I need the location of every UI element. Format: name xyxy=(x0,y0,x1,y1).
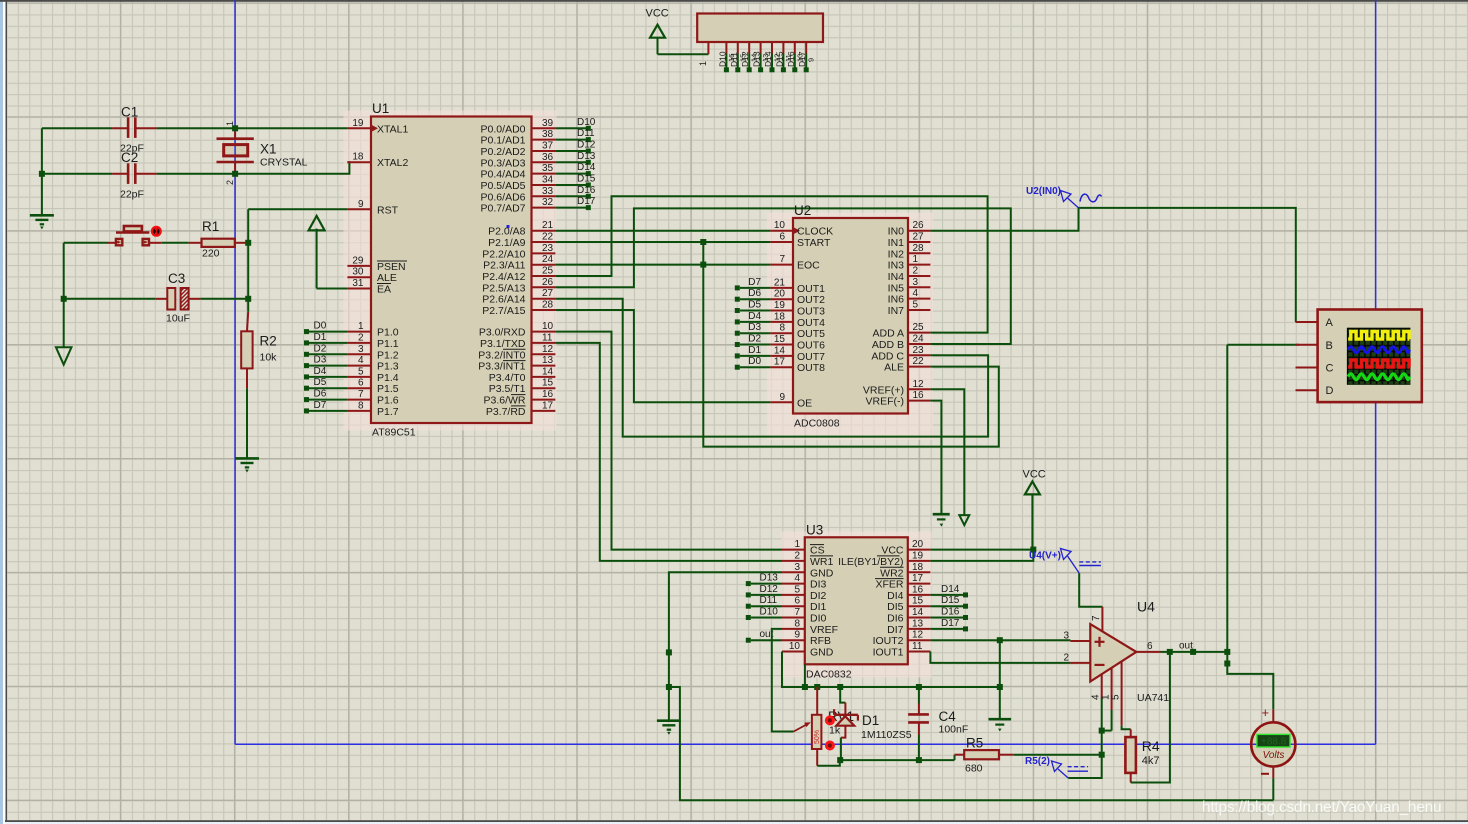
svg-text:C2: C2 xyxy=(121,150,138,165)
node D5 terminal xyxy=(304,386,309,391)
oscilloscope screen xyxy=(1347,328,1411,385)
svg-text:P3.7/RD: P3.7/RD xyxy=(486,406,526,418)
svg-text:D7: D7 xyxy=(748,277,761,288)
U4 pin 2 stub xyxy=(1070,662,1090,664)
RN1 pin D16 stub xyxy=(794,42,796,54)
U2 selection highlight xyxy=(767,213,933,441)
svg-text:RFB: RFB xyxy=(810,635,831,647)
ground VREF- xyxy=(933,513,950,516)
svg-text:D15: D15 xyxy=(941,595,960,606)
svg-text:VCC: VCC xyxy=(1023,469,1046,481)
scope trace B blue xyxy=(1348,347,1409,353)
svg-text:2: 2 xyxy=(1063,652,1069,663)
node C3 right junction xyxy=(245,296,251,302)
terminal arrow down VREF+ xyxy=(959,515,969,525)
wire left vertical C1-C2 xyxy=(41,128,43,215)
U1 pin 25 P2.4/A12 xyxy=(532,275,556,277)
svg-text:36: 36 xyxy=(542,152,554,163)
RN1 pin 1 xyxy=(707,42,709,54)
wire RN1 D16 xyxy=(794,54,796,68)
wire P0.7 to D17 terminal xyxy=(555,207,586,209)
op-amp U4 body xyxy=(1090,624,1136,681)
crystal X1 body xyxy=(224,145,248,156)
svg-text:U2(IN0): U2(IN0) xyxy=(1026,186,1061,197)
node EOC junction xyxy=(700,262,706,268)
svg-text:P2.7/A15: P2.7/A15 xyxy=(482,305,525,317)
node pin4/1 junction xyxy=(1099,728,1105,734)
svg-text:22pF: 22pF xyxy=(120,188,144,200)
svg-text:10: 10 xyxy=(774,220,786,231)
svg-text:D0: D0 xyxy=(748,356,761,367)
svg-text:P2.1/A9: P2.1/A9 xyxy=(488,237,526,249)
svg-text:D12: D12 xyxy=(760,584,779,595)
node D12 terminal xyxy=(586,149,591,154)
wire U3 GND10 to analog rail xyxy=(782,652,1000,688)
svg-text:X1: X1 xyxy=(260,142,277,157)
window edge chrome xyxy=(0,0,3,824)
svg-text:5: 5 xyxy=(1111,694,1122,700)
U4 pin 3 stub xyxy=(1070,640,1090,642)
U4 pin 4 stub xyxy=(1101,674,1103,698)
wire D12 terminal to U3 DI2 xyxy=(751,594,782,596)
svg-text:DI0: DI0 xyxy=(810,613,827,625)
svg-text:P3.2/INT0: P3.2/INT0 xyxy=(478,349,525,361)
U1 pin 16 P3.6/WR xyxy=(532,399,556,401)
U1 pin 28 P2.7/A15 xyxy=(532,309,556,311)
wire net P2.1 to U2 START xyxy=(555,241,770,243)
node IOUT2 junction xyxy=(997,637,1003,643)
wire U3 GND3 to ground rail xyxy=(669,572,782,720)
U1 selection highlight xyxy=(344,111,557,431)
wire D13 terminal to U3 DI3 xyxy=(751,583,782,585)
U3 pin 17 XFER xyxy=(908,583,931,585)
U1 pin 7 P1.6 xyxy=(347,399,371,401)
svg-text:D11: D11 xyxy=(577,128,595,139)
U2 pin 10 CLOCK xyxy=(770,230,793,232)
svg-text:7: 7 xyxy=(794,607,800,618)
svg-text:2: 2 xyxy=(913,266,919,277)
svg-text:D17: D17 xyxy=(797,51,807,67)
U3 pin 7 DI0 xyxy=(782,617,805,619)
svg-text:1: 1 xyxy=(225,121,235,126)
svg-text:2: 2 xyxy=(358,332,364,343)
svg-text:15: 15 xyxy=(912,596,924,607)
wire RN1 D12 xyxy=(748,54,750,68)
wire RN1 D10 xyxy=(725,54,727,68)
svg-text:D11: D11 xyxy=(729,52,739,67)
svg-text:29: 29 xyxy=(352,255,364,266)
svg-text:23: 23 xyxy=(542,243,554,254)
U2 pin 27 IN1 xyxy=(908,241,930,243)
node D16 terminal xyxy=(586,194,591,199)
wire D4 terminal to U2 OUT4 xyxy=(740,321,771,323)
svg-text:38: 38 xyxy=(542,129,554,140)
node D2 terminal xyxy=(735,342,740,347)
wire P0.6 to D16 terminal xyxy=(555,195,586,197)
RN1 pin D13 stub xyxy=(760,42,762,54)
wire D11 terminal to U3 DI1 xyxy=(751,605,782,607)
svg-text:OUT5: OUT5 xyxy=(797,328,825,340)
svg-text:D14: D14 xyxy=(941,584,960,595)
node D11 terminal xyxy=(746,604,751,609)
U1 pin 35 P0.4/AD4 xyxy=(532,173,556,175)
svg-text:GND: GND xyxy=(810,567,834,579)
svg-text:7: 7 xyxy=(779,254,785,265)
svg-text:D13: D13 xyxy=(752,51,762,67)
scope input D xyxy=(1296,389,1318,391)
svg-text:U4(V+): U4(V+) xyxy=(1029,551,1061,562)
svg-text:IN1: IN1 xyxy=(888,237,905,249)
node VCC junction xyxy=(1030,547,1036,553)
U2 pin 18 OUT4 xyxy=(770,321,793,323)
U1 pin 38 P0.1/AD1 xyxy=(532,139,556,141)
U1 pin 31 EA xyxy=(347,288,371,290)
svg-text:OUT1: OUT1 xyxy=(797,283,825,295)
U3 pin 9 RFB xyxy=(782,639,805,641)
svg-text:D6: D6 xyxy=(314,389,327,400)
scope input B xyxy=(1296,344,1318,346)
node out terminal xyxy=(1190,649,1196,655)
svg-text:out: out xyxy=(1179,641,1193,652)
node X1 bottom junction xyxy=(232,171,238,177)
svg-text:11: 11 xyxy=(912,641,923,652)
wire D3 terminal to U2 OUT5 xyxy=(740,332,771,334)
wire XTAL2 jog xyxy=(235,162,349,174)
svg-text:P1.3: P1.3 xyxy=(377,361,399,373)
U2 pin 20 OUT2 xyxy=(770,298,793,300)
U1 pin 27 P2.6/A14 xyxy=(532,298,556,300)
svg-text:8: 8 xyxy=(794,618,800,629)
svg-text:1: 1 xyxy=(794,539,800,550)
U1 pin 5 P1.4 xyxy=(347,376,371,378)
svg-text:PSEN: PSEN xyxy=(377,261,406,273)
wire D6 terminal to P1.6 xyxy=(309,399,347,401)
svg-text:D4: D4 xyxy=(748,311,761,322)
svg-text:D1: D1 xyxy=(862,713,879,728)
svg-text:D13: D13 xyxy=(577,151,596,162)
wire to voltmeter + xyxy=(1227,664,1273,710)
node D7 terminal xyxy=(304,408,309,413)
svg-text:35: 35 xyxy=(542,163,554,174)
svg-text:P2.6/A14: P2.6/A14 xyxy=(482,294,525,306)
svg-text:D16: D16 xyxy=(941,607,960,618)
svg-text:28: 28 xyxy=(913,243,925,254)
svg-text:P0.1/AD1: P0.1/AD1 xyxy=(481,135,526,147)
U3 pin 8 VREF xyxy=(782,628,805,630)
svg-text:19: 19 xyxy=(912,550,924,561)
svg-text:XFER: XFER xyxy=(875,579,903,591)
node rail C4 xyxy=(916,684,922,690)
U1 pin 33 P0.6/AD6 xyxy=(532,195,556,197)
svg-text:P1.0: P1.0 xyxy=(377,327,399,339)
svg-text:26: 26 xyxy=(542,277,554,288)
wire U2 VREF+ to arrow terminal xyxy=(930,389,964,515)
U4 pin 5 stub xyxy=(1121,661,1123,725)
svg-text:IOUT1: IOUT1 xyxy=(873,647,904,659)
wire RN1 D15 xyxy=(782,54,784,68)
wire U3 VCC pin20 xyxy=(930,549,1033,551)
svg-text:A: A xyxy=(1326,317,1334,329)
svg-text:P1.7: P1.7 xyxy=(377,406,399,418)
svg-text:24: 24 xyxy=(913,334,925,345)
svg-text:IN6: IN6 xyxy=(888,294,905,306)
wire net P2.3 to U2 EOC xyxy=(555,264,770,266)
voltmeter display xyxy=(1257,734,1290,747)
svg-text:18: 18 xyxy=(352,152,364,163)
node X1 top junction xyxy=(232,125,238,131)
svg-text:XTAL1: XTAL1 xyxy=(377,123,408,135)
U3 pin 18 WR2 xyxy=(908,571,931,573)
U1 pin 18 XTAL2 xyxy=(347,161,371,163)
U1 pin 36 P0.3/AD3 xyxy=(532,161,556,163)
svg-text:1: 1 xyxy=(698,61,708,66)
U2 pin 23 ADD C xyxy=(908,354,930,356)
svg-text:D13: D13 xyxy=(760,573,779,584)
wire D2 terminal to P1.2 xyxy=(309,353,347,355)
U1 pin 24 P2.3/A11 xyxy=(532,264,556,266)
U2 pin 25 ADD A xyxy=(908,332,930,334)
U2 pin 15 OUT6 xyxy=(770,344,793,346)
svg-text:50%: 50% xyxy=(814,730,821,744)
U3 pin 3 GND xyxy=(782,571,805,573)
svg-text:220: 220 xyxy=(202,247,220,259)
node D13 terminal xyxy=(746,581,751,586)
node GND3 branch junction xyxy=(666,684,672,690)
svg-text:D3: D3 xyxy=(314,355,327,366)
svg-text:3: 3 xyxy=(1063,631,1069,642)
oscilloscope body xyxy=(1318,310,1422,403)
svg-text:P1.4: P1.4 xyxy=(377,372,399,384)
svg-text:4: 4 xyxy=(358,355,364,366)
svg-text:D15: D15 xyxy=(577,174,596,185)
wire D5 terminal to P1.5 xyxy=(309,387,347,389)
wire net P3.0 to U3 CS xyxy=(555,332,782,550)
node D10 terminal xyxy=(746,615,751,620)
wire U3 corner stub xyxy=(804,664,806,687)
svg-text:13: 13 xyxy=(912,618,924,629)
wire U3 VREF to RV1 wiper xyxy=(772,629,794,732)
voltmeter body fill xyxy=(1251,722,1295,766)
svg-text:2: 2 xyxy=(225,180,235,185)
wire P0.4 to D14 terminal xyxy=(555,173,586,175)
svg-text:13: 13 xyxy=(542,355,554,366)
svg-text:25: 25 xyxy=(542,266,554,277)
node D3 terminal xyxy=(304,363,309,368)
U2 pin 22 ALE xyxy=(908,366,930,368)
node voltmeter branch junction xyxy=(1224,661,1230,667)
terminal arrow down left xyxy=(56,347,72,365)
svg-text:C1: C1 xyxy=(121,104,138,119)
wire voltmeter to bottom rail xyxy=(1272,778,1274,800)
capacitor C2 xyxy=(112,173,128,175)
svg-text:VREF: VREF xyxy=(810,624,838,636)
wire D10 terminal to U3 DI0 xyxy=(751,617,782,619)
svg-text:P1.1: P1.1 xyxy=(377,338,399,350)
U2 pin 12 VREF(+) xyxy=(908,388,930,390)
wire R5 to opamp pins xyxy=(1014,754,1102,756)
wire R2 to ground xyxy=(246,388,248,458)
U1 pin 13 P3.3/INT1 xyxy=(532,365,556,367)
potentiometer RV1 xyxy=(816,687,818,715)
svg-text:P2.5/A13: P2.5/A13 xyxy=(482,282,525,294)
wire net P3.1 to U3 WR1 xyxy=(555,343,782,561)
U4 pin 1 stub xyxy=(1111,668,1113,710)
wire button row left xyxy=(64,242,108,244)
svg-text:EA: EA xyxy=(377,284,391,296)
wire D7 terminal to U2 OUT1 xyxy=(740,287,771,289)
svg-text:WR2: WR2 xyxy=(880,567,903,579)
svg-text:3: 3 xyxy=(913,277,919,288)
svg-text:VCC: VCC xyxy=(881,545,904,557)
node D17 terminal xyxy=(963,626,968,631)
svg-text:9: 9 xyxy=(779,392,785,403)
resistor R2 xyxy=(247,312,248,331)
svg-text:8: 8 xyxy=(779,323,785,334)
svg-text:DI2: DI2 xyxy=(810,590,827,602)
wire D3 terminal to P1.3 xyxy=(309,365,347,367)
node D4 terminal xyxy=(304,374,309,379)
wire output to voltmeter net xyxy=(1161,651,1228,653)
ground below R2 xyxy=(235,457,259,460)
svg-text:17: 17 xyxy=(542,400,554,411)
svg-text:ADD A: ADD A xyxy=(872,328,904,340)
svg-text:D3: D3 xyxy=(748,322,761,333)
wire RN1 D13 xyxy=(760,54,762,68)
svg-text:D1: D1 xyxy=(314,332,327,343)
svg-text:P3.0/RXD: P3.0/RXD xyxy=(479,327,526,339)
node C3 left junction xyxy=(61,296,67,302)
svg-text:D10: D10 xyxy=(577,117,596,128)
svg-text:P0.2/AD2: P0.2/AD2 xyxy=(481,146,526,158)
wire to probe R5(2) xyxy=(1068,755,1102,778)
svg-text:12: 12 xyxy=(913,379,925,390)
wire C2 row xyxy=(42,173,112,175)
wire C3 row xyxy=(64,298,156,300)
svg-text:U1: U1 xyxy=(372,101,389,116)
U1 pin 37 P0.2/AD2 xyxy=(532,150,556,152)
U3 pin 1 CS xyxy=(782,549,805,551)
node D12 terminal xyxy=(746,592,751,597)
sheet border left xyxy=(234,0,236,744)
svg-text:P2.4/A12: P2.4/A12 xyxy=(482,271,525,283)
svg-text:+: + xyxy=(1262,705,1270,720)
svg-text:OUT3: OUT3 xyxy=(797,306,825,318)
sheet border right xyxy=(1375,0,1377,744)
wire scope B net xyxy=(1226,345,1228,664)
U2 pin 14 OUT7 xyxy=(770,355,793,357)
wire EA xyxy=(317,288,348,290)
svg-text:VREF(+): VREF(+) xyxy=(863,384,904,396)
svg-text:DI4: DI4 xyxy=(887,590,904,602)
U2 pin 6 START xyxy=(770,241,793,243)
U3 pin 12 IOUT2 xyxy=(908,639,931,641)
U4 output pin 6 xyxy=(1136,651,1160,653)
svg-text:https://blog.csdn.net/YaoYuan_: https://blog.csdn.net/YaoYuan_henu xyxy=(1202,799,1441,816)
svg-text:D5: D5 xyxy=(748,300,761,311)
svg-text:D14: D14 xyxy=(577,162,596,173)
svg-text:P3.4/T0: P3.4/T0 xyxy=(489,372,526,384)
RN1 pin D17 stub xyxy=(805,42,807,54)
U1 pin 12 P3.2/INT0 xyxy=(532,353,556,355)
svg-text:D2: D2 xyxy=(748,334,761,345)
push button xyxy=(116,231,149,233)
wire ground branch to bottom rail xyxy=(669,687,1273,800)
wire P0.3 to D13 terminal xyxy=(555,161,586,163)
svg-text:30: 30 xyxy=(352,267,364,278)
U3 pin 14 DI6 xyxy=(908,617,931,619)
svg-text:P0.3/AD3: P0.3/AD3 xyxy=(481,157,526,169)
svg-text:10: 10 xyxy=(789,641,801,652)
svg-text:Volts: Volts xyxy=(1263,750,1285,761)
svg-text:D0: D0 xyxy=(314,321,327,332)
wire D4 terminal to P1.4 xyxy=(309,376,347,378)
svg-text:22: 22 xyxy=(542,232,554,243)
svg-text:21: 21 xyxy=(774,277,786,288)
RN1 pin D12 stub xyxy=(748,42,750,54)
node rail RV1 xyxy=(814,684,820,690)
node C2 left junction xyxy=(39,171,45,177)
svg-text:P2.0/A8: P2.0/A8 xyxy=(488,226,526,238)
svg-text:1: 1 xyxy=(913,254,919,265)
svg-text:IN7: IN7 xyxy=(888,305,905,317)
svg-text:9: 9 xyxy=(794,630,800,641)
svg-text:D2: D2 xyxy=(314,343,327,354)
U2 pin 5 IN7 xyxy=(908,309,930,311)
svg-text:12: 12 xyxy=(912,630,924,641)
svg-text:VCC: VCC xyxy=(646,8,669,20)
node out terminal xyxy=(746,638,751,643)
scope input A xyxy=(1296,321,1318,323)
wire P0.1 to D11 terminal xyxy=(555,139,586,141)
voltmeter - lead xyxy=(1272,767,1274,779)
svg-text:GND: GND xyxy=(810,647,834,659)
svg-text:D14: D14 xyxy=(763,51,773,67)
svg-text:12: 12 xyxy=(542,344,554,355)
svg-text:D: D xyxy=(1326,385,1334,397)
svg-text:16: 16 xyxy=(542,389,554,400)
wire D2 terminal to U2 OUT6 xyxy=(740,344,771,346)
svg-text:DI3: DI3 xyxy=(810,579,827,591)
wire P0.5 to D15 terminal xyxy=(555,184,586,186)
svg-text:9: 9 xyxy=(358,199,364,210)
svg-text:R1: R1 xyxy=(202,219,219,234)
node D17 terminal xyxy=(586,205,591,210)
chip U2 ADC0808 body xyxy=(793,218,908,414)
node D1 terminal xyxy=(304,340,309,345)
svg-text:D7: D7 xyxy=(314,400,327,411)
svg-text:34: 34 xyxy=(542,175,554,186)
svg-text:P1.6: P1.6 xyxy=(377,395,399,407)
svg-text:22: 22 xyxy=(913,356,925,367)
ground flat right xyxy=(989,718,1012,721)
svg-text:ADD B: ADD B xyxy=(872,339,904,351)
svg-text:5: 5 xyxy=(794,584,800,595)
svg-text:7: 7 xyxy=(1091,615,1102,621)
node D7 terminal xyxy=(735,285,740,290)
U2 pin 9 OE xyxy=(770,401,793,403)
svg-text:IN4: IN4 xyxy=(888,271,905,283)
svg-text:16: 16 xyxy=(912,584,924,595)
svg-text:33: 33 xyxy=(542,186,554,197)
U3 pin 10 GND xyxy=(782,651,805,653)
U3 pin 19 ILE(BY1/BY2) xyxy=(908,560,931,562)
svg-text:6: 6 xyxy=(358,378,364,389)
U1 pin 32 P0.7/AD7 xyxy=(532,207,556,209)
wire button to R1 xyxy=(108,242,116,244)
svg-text:2: 2 xyxy=(794,550,800,561)
svg-text:17: 17 xyxy=(774,357,786,368)
U2 pin 21 OUT1 xyxy=(770,287,793,289)
